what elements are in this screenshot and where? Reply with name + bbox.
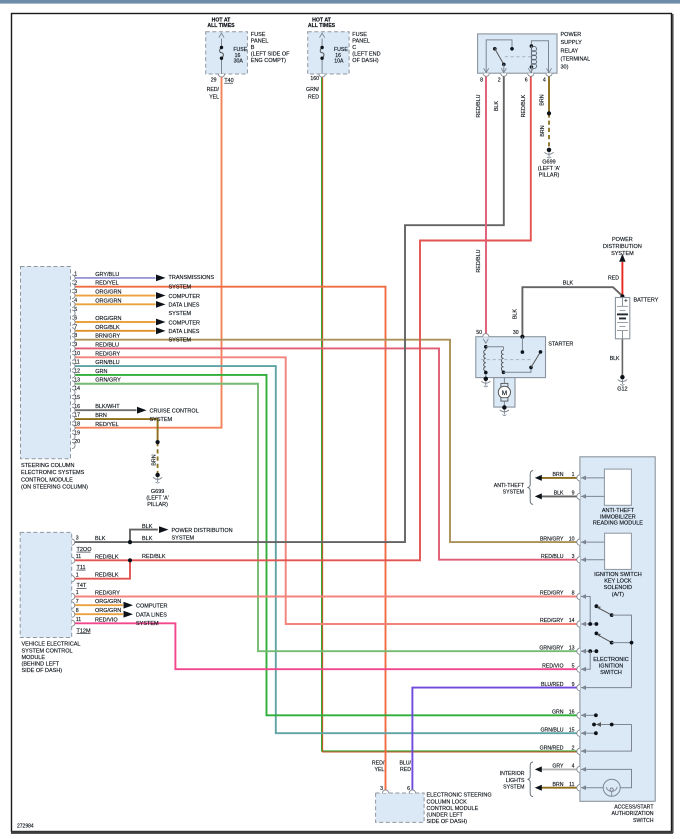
access/start switch lamp circuit [581, 769, 632, 787]
wire ORG/GRN steering pin 4 [74, 303, 156, 305]
arrow to power distribution system [159, 526, 169, 533]
svg-text:GRY: GRY [552, 764, 564, 770]
ignition switch contact A [595, 604, 599, 608]
battery [615, 298, 629, 339]
wire RED/BLK vehicle module pin 11 to power supply relay pin 6 [75, 76, 531, 560]
svg-text:RED/GRY: RED/GRY [540, 618, 564, 624]
junction dot battery positive [620, 294, 624, 298]
svg-text:11: 11 [74, 360, 79, 366]
arrow computer data lines (pins 6,7) [156, 319, 166, 326]
wire BLK anti-theft reading module pin 9 to anti-theft system [541, 495, 577, 497]
svg-text:GRN/BLU: GRN/BLU [95, 360, 119, 366]
svg-text:RED/GRY: RED/GRY [95, 351, 120, 357]
svg-text:BRN/GRY: BRN/GRY [540, 536, 564, 542]
right box pin connectors and labels [577, 475, 580, 481]
ignition/access module assembly box [580, 457, 655, 802]
svg-text:DATA LINES: DATA LINES [136, 612, 167, 618]
ignition switch contact B [595, 632, 599, 636]
svg-text:(LEFT 'A': (LEFT 'A' [146, 495, 168, 501]
starter mechanical link dashed [481, 359, 531, 361]
wire RED/GRY steering pin 10 to ignition switch pin 14 [74, 357, 577, 624]
svg-text:1: 1 [572, 472, 575, 478]
svg-text:RED/YEL: RED/YEL [95, 281, 119, 287]
wire RED/YEL fuse panel B to steering module pin 18 [74, 77, 222, 428]
svg-text:ORG/BLK: ORG/BLK [95, 325, 120, 331]
svg-text:14: 14 [569, 618, 575, 624]
svg-text:50: 50 [476, 330, 482, 336]
lock module pin 3 connector [382, 790, 388, 793]
arrow computer data lines (pins 3,4) [156, 292, 166, 299]
svg-text:20: 20 [74, 439, 80, 445]
svg-text:4: 4 [543, 78, 546, 84]
junction dot BRN G699 [156, 440, 160, 444]
wire BRN anti-theft reading module pin 1 to anti-theft system [541, 477, 577, 479]
svg-text:4: 4 [572, 764, 575, 770]
svg-text:BRN/GRY: BRN/GRY [95, 334, 120, 340]
svg-text:BRN: BRN [540, 94, 546, 105]
svg-text:CONTROL MODULE: CONTROL MODULE [427, 806, 479, 812]
svg-text:INTERIOR: INTERIOR [500, 771, 525, 777]
svg-text:OF DASH): OF DASH) [352, 58, 378, 64]
wire RED battery positive to power distribution system [621, 262, 623, 296]
relay pin arrows and connectors [484, 68, 489, 72]
svg-text:G699: G699 [151, 489, 164, 495]
starter box [476, 337, 546, 378]
svg-text:VEHICLE ELECTRICAL: VEHICLE ELECTRICAL [22, 642, 81, 648]
svg-text:8: 8 [76, 608, 79, 614]
svg-text:11: 11 [76, 617, 81, 623]
wire BLK/WHT steering pin 16 to cruise control system [74, 409, 137, 411]
svg-text:30A: 30A [234, 59, 244, 65]
svg-text:SYSTEM: SYSTEM [150, 417, 173, 423]
electronic ignition switch internal wiring [581, 597, 590, 625]
svg-text:ORG/GRN: ORG/GRN [95, 599, 121, 605]
wire GRN/BLU steering pin 11 to access/start switch pin 15 [74, 366, 577, 733]
starter solenoid coils [485, 345, 487, 350]
connector fuse panel B [218, 74, 224, 77]
fuse 16 panel C [321, 39, 323, 48]
svg-text:3: 3 [572, 554, 575, 560]
svg-text:SYSTEM: SYSTEM [503, 784, 524, 790]
wire BLK battery negative to ground G12 [621, 339, 623, 377]
svg-text:ORG/GRN: ORG/GRN [95, 316, 121, 322]
svg-text:BRN: BRN [553, 472, 564, 478]
svg-text:C: C [352, 45, 356, 51]
wire GRN steering pin 12 to access/start switch pin 16 [74, 375, 577, 715]
svg-text:16: 16 [569, 710, 575, 716]
svg-text:SYSTEM: SYSTEM [503, 489, 524, 495]
svg-text:LIGHTS: LIGHTS [506, 778, 525, 784]
svg-text:STEERING COLUMN: STEERING COLUMN [21, 463, 75, 469]
svg-text:6: 6 [525, 78, 528, 84]
svg-text:RED/BLK: RED/BLK [142, 554, 166, 560]
svg-text:BATTERY: BATTERY [634, 297, 659, 303]
svg-text:BLK: BLK [142, 536, 153, 542]
svg-text:BLK/WHT: BLK/WHT [95, 404, 120, 410]
svg-text:SWITCH: SWITCH [633, 818, 654, 824]
wire BRN power supply relay pin 4 to ground G699 [548, 76, 550, 113]
svg-text:PILLAR): PILLAR) [147, 502, 168, 508]
svg-text:19: 19 [74, 430, 80, 436]
svg-text:1: 1 [76, 572, 79, 578]
ground G12 [620, 375, 624, 379]
svg-text:ORG/GRN: ORG/GRN [95, 608, 121, 614]
svg-text:PANEL: PANEL [251, 39, 269, 45]
svg-text:BLU/: BLU/ [399, 760, 411, 766]
wire BRN/GRY steering pin 8 to key lock solenoid pin 10 [74, 340, 577, 542]
svg-text:SYSTEM: SYSTEM [172, 535, 195, 541]
arrow computer data lines (vehicle pins 7,8) [124, 602, 134, 609]
starter solenoid ground [484, 377, 488, 381]
svg-text:BRN: BRN [151, 454, 157, 465]
lock module pin 6 connector [409, 790, 415, 793]
svg-text:7: 7 [74, 324, 77, 330]
access/start switch contacts [581, 714, 596, 716]
svg-text:15: 15 [569, 727, 575, 733]
starter motor [503, 378, 505, 384]
svg-text:ANTI-THEFT: ANTI-THEFT [494, 483, 525, 489]
svg-text:SIDE OF DASH): SIDE OF DASH) [22, 668, 63, 674]
svg-text:FUSE: FUSE [251, 32, 266, 38]
svg-text:13: 13 [74, 377, 80, 383]
svg-text:M: M [502, 390, 507, 397]
svg-text:(UNDER LEFT: (UNDER LEFT [427, 813, 464, 819]
svg-text:2: 2 [74, 280, 77, 286]
svg-text:BLK: BLK [563, 280, 574, 286]
svg-text:17: 17 [74, 413, 80, 419]
svg-text:5: 5 [572, 663, 575, 669]
svg-text:RED: RED [400, 767, 411, 773]
svg-text:RED: RED [608, 276, 619, 282]
svg-text:SWITCH: SWITCH [600, 670, 622, 676]
svg-text:SYSTEM CONTROL: SYSTEM CONTROL [22, 648, 73, 654]
svg-text:SYSTEM: SYSTEM [611, 251, 634, 257]
svg-text:ALL TIMES: ALL TIMES [308, 23, 336, 29]
svg-text:IMMOBILIZER: IMMOBILIZER [600, 514, 636, 520]
fuse panel C box [308, 32, 349, 74]
svg-text:11: 11 [76, 554, 81, 560]
svg-text:YEL: YEL [374, 767, 384, 773]
ignition switch pins 13 and 5 [581, 650, 596, 652]
svg-text:11: 11 [569, 782, 574, 788]
svg-text:G12: G12 [617, 386, 627, 392]
fuse 16 panel B [221, 39, 223, 48]
connector fuse panel C [319, 74, 325, 77]
svg-text:RED/: RED/ [207, 87, 220, 93]
svg-text:2: 2 [498, 78, 501, 84]
svg-text:ORG/GRN: ORG/GRN [95, 290, 121, 296]
svg-text:SUPPLY: SUPPLY [561, 40, 583, 46]
svg-text:ALL TIMES: ALL TIMES [207, 23, 235, 29]
svg-text:ENG COMPT): ENG COMPT) [251, 58, 286, 64]
svg-text:9: 9 [74, 342, 77, 348]
interior lamp [603, 779, 620, 796]
svg-text:GRN: GRN [95, 369, 107, 375]
svg-text:3: 3 [76, 536, 79, 542]
svg-text:ORG/GRN: ORG/GRN [95, 298, 121, 304]
svg-text:272984: 272984 [17, 824, 34, 830]
wire ORG/GRN vehicle module pin 8 [75, 613, 123, 615]
wire GRN/GRY steering pin 13 to ignition switch pin 13 [74, 384, 577, 651]
svg-text:30: 30 [513, 330, 519, 336]
svg-text:AUTHORIZATION: AUTHORIZATION [612, 811, 654, 817]
svg-text:BLK: BLK [142, 524, 153, 530]
svg-text:BRN: BRN [540, 125, 546, 136]
wire BLK vehicle module pin 3 to power supply relay pin 2 [75, 76, 504, 542]
svg-text:8: 8 [572, 591, 575, 597]
wire RED/BLK vehicle module pin 1 [75, 560, 130, 578]
steering column electronic systems control module box [21, 267, 71, 459]
svg-text:KEY LOCK: KEY LOCK [604, 579, 632, 585]
svg-text:29: 29 [211, 78, 217, 84]
svg-text:GRY/BLU: GRY/BLU [95, 272, 119, 278]
relay coil [531, 41, 548, 73]
svg-text:5: 5 [74, 307, 77, 313]
wire RED/BLU power supply relay pin 8 to starter pin 50 [485, 76, 487, 333]
svg-text:GRN/RED: GRN/RED [540, 746, 564, 752]
svg-text:(TERMINAL: (TERMINAL [561, 56, 591, 62]
svg-text:3: 3 [74, 289, 77, 295]
arrow cruise control system [137, 407, 147, 414]
svg-text:PILLAR): PILLAR) [539, 173, 560, 179]
wire GRY access/start switch pin 4 to interior lights system [541, 768, 577, 770]
svg-text:ELECTRONIC SYSTEMS: ELECTRONIC SYSTEMS [21, 470, 85, 476]
brace interior lights system [528, 762, 533, 797]
svg-text:RED/BLU: RED/BLU [95, 342, 119, 348]
wire RED/BLU steering pin 9 to key lock solenoid pin 3 [74, 348, 577, 559]
svg-text:FUSE: FUSE [352, 32, 367, 38]
wire BRN dashed segment relay ground [548, 113, 550, 149]
svg-text:18: 18 [74, 421, 80, 427]
svg-text:CRUISE CONTROL: CRUISE CONTROL [150, 409, 199, 415]
svg-text:DATA LINES: DATA LINES [169, 329, 200, 335]
svg-text:(ON STEERING COLUMN): (ON STEERING COLUMN) [21, 485, 88, 491]
svg-text:RED/BLU: RED/BLU [476, 249, 482, 272]
svg-text:ACCESS/START: ACCESS/START [614, 805, 654, 811]
svg-text:GRN/: GRN/ [306, 87, 320, 93]
svg-text:+: + [624, 297, 628, 304]
relay mechanical link dashed [505, 56, 533, 58]
svg-text:3: 3 [380, 786, 383, 792]
svg-text:POWER: POWER [561, 32, 582, 38]
ground G699 left A pillar (relay) [547, 148, 551, 152]
svg-text:(LEFT END: (LEFT END [352, 52, 380, 58]
svg-text:POWER DISTRIBUTION: POWER DISTRIBUTION [172, 528, 233, 534]
svg-text:10A: 10A [334, 59, 344, 65]
svg-text:BLK: BLK [554, 491, 564, 497]
arrow up power distribution system (battery) [619, 254, 625, 262]
svg-text:COMPUTER: COMPUTER [136, 604, 168, 610]
wire BLU/RED steering column lock pin 6 to ignition switch pin 9 [412, 688, 576, 790]
starter switch contact [504, 367, 532, 372]
svg-text:SYSTEM: SYSTEM [136, 621, 159, 627]
anti-theft immobilizer reading module inner box [604, 469, 631, 505]
wire ORG/GRN steering pin 6 [74, 321, 156, 323]
arrow transmissions system [156, 275, 166, 282]
svg-text:RED/GRY: RED/GRY [540, 591, 564, 597]
access/start switch wiper [594, 724, 632, 726]
svg-text:15: 15 [74, 395, 80, 401]
svg-text:RED: RED [308, 95, 319, 101]
svg-text:YEL: YEL [209, 95, 219, 101]
svg-text:IGNITION: IGNITION [599, 664, 623, 670]
svg-text:8: 8 [74, 333, 77, 339]
ignition switch pin 9 wire [581, 687, 632, 689]
svg-text:PANEL: PANEL [352, 39, 370, 45]
starter motor box [494, 378, 515, 408]
svg-text:COMPUTER: COMPUTER [169, 320, 201, 326]
svg-text:GRN/GRY: GRN/GRY [539, 645, 564, 651]
svg-text:IGNITION SWITCH: IGNITION SWITCH [594, 572, 642, 578]
svg-text:POWER: POWER [612, 237, 633, 243]
junction dot BLK [128, 540, 132, 544]
svg-text:DATA LINES: DATA LINES [169, 303, 200, 309]
svg-text:10: 10 [569, 536, 575, 542]
svg-text:6: 6 [407, 786, 410, 792]
svg-text:BLK: BLK [494, 101, 500, 111]
starter motor ground [502, 405, 506, 409]
svg-text:BRN: BRN [95, 413, 107, 419]
steering module pin connectors [72, 275, 75, 281]
svg-text:7: 7 [76, 599, 79, 605]
brace anti-theft system [528, 471, 533, 505]
relay switch contact [486, 40, 512, 73]
junction dot BRN relay [547, 111, 551, 115]
wire ORG/GRN vehicle module pin 7 [75, 604, 123, 606]
svg-text:(LEFT 'A': (LEFT 'A' [538, 166, 560, 172]
page top bar [0, 0, 680, 4]
svg-text:RED/VIO: RED/VIO [542, 663, 563, 669]
svg-text:COLUMN LOCK: COLUMN LOCK [427, 799, 468, 805]
svg-text:(BEHIND LEFT: (BEHIND LEFT [22, 662, 60, 668]
svg-text:RED/BLU: RED/BLU [476, 94, 482, 117]
svg-text:RED/GRY: RED/GRY [95, 591, 120, 597]
svg-text:6: 6 [74, 316, 77, 322]
svg-text:RED/: RED/ [372, 760, 385, 766]
ground G699 left A pillar (steering) [156, 473, 160, 477]
wire ORG/GRN steering pin 3 [74, 295, 156, 297]
wire BRN steering pin 17 to ground G699 [74, 419, 158, 442]
svg-text:8: 8 [480, 78, 483, 84]
svg-text:12: 12 [74, 369, 80, 375]
svg-text:BLK: BLK [610, 356, 620, 362]
power supply relay box [478, 34, 557, 73]
svg-text:COMPUTER: COMPUTER [169, 294, 201, 300]
svg-text:1: 1 [74, 272, 77, 278]
svg-text:30): 30) [561, 64, 569, 70]
ignition switch key lock solenoid inner box [605, 533, 632, 569]
wire GRN/RED fuse panel C to access/start switch pin 2 [322, 77, 577, 751]
fuse panel B box [206, 32, 248, 74]
junction dot RED/BLK [128, 558, 132, 562]
svg-text:9: 9 [572, 682, 575, 688]
svg-text:READING MODULE: READING MODULE [593, 521, 643, 527]
svg-text:STARTER: STARTER [548, 342, 573, 348]
svg-text:G699: G699 [542, 159, 555, 165]
svg-text:BLU/RED: BLU/RED [541, 682, 564, 688]
wire RED/VIO vehicle module pin 11 to ignition switch pin 5 [75, 623, 577, 669]
svg-text:SYSTEM: SYSTEM [169, 285, 192, 291]
svg-text:14: 14 [74, 386, 80, 392]
svg-text:B: B [251, 45, 255, 51]
wire RED/GRY vehicle module pin 1 to ignition switch pin 8 [75, 596, 577, 598]
svg-text:MODULE: MODULE [22, 655, 46, 661]
svg-text:RED/BLK: RED/BLK [521, 94, 527, 117]
wire BRN dashed segment to G699 [157, 442, 159, 475]
svg-text:9: 9 [572, 491, 575, 497]
svg-text:160: 160 [310, 76, 319, 82]
svg-text:10: 10 [74, 351, 80, 357]
wire ORG/BLK steering pin 7 [74, 330, 156, 332]
svg-text:GRN/BLU: GRN/BLU [540, 727, 563, 733]
svg-text:ELECTRONIC STEERING: ELECTRONIC STEERING [427, 793, 492, 799]
svg-text:RED/BLU: RED/BLU [541, 554, 564, 560]
svg-text:16: 16 [74, 404, 80, 410]
electronic steering column lock control module box [376, 793, 425, 822]
svg-text:SIDE OF DASH): SIDE OF DASH) [427, 819, 468, 825]
svg-text:RED/YEL: RED/YEL [95, 422, 119, 428]
svg-text:GRN/GRY: GRN/GRY [95, 378, 121, 384]
svg-text:TRANSMISSIONS: TRANSMISSIONS [169, 275, 215, 281]
svg-text:4: 4 [74, 298, 77, 304]
svg-text:BLK: BLK [95, 536, 106, 542]
svg-text:ANTI-THEFT: ANTI-THEFT [602, 508, 635, 514]
svg-text:DISTRIBUTION: DISTRIBUTION [603, 244, 642, 250]
svg-text:GRN: GRN [552, 710, 564, 716]
svg-text:BRN: BRN [553, 782, 564, 788]
starter pin 50 connector [483, 334, 489, 337]
wire BLK starter pin 30 to battery positive [522, 287, 622, 337]
svg-text:SYSTEM: SYSTEM [169, 338, 192, 344]
svg-text:RED/BLK: RED/BLK [95, 573, 119, 579]
svg-text:2: 2 [572, 746, 575, 752]
svg-text:CONTROL MODULE: CONTROL MODULE [21, 477, 73, 483]
svg-text:SOLENOID: SOLENOID [604, 585, 632, 591]
starter pin 30 terminal [520, 335, 524, 339]
vehicle electrical system control module box [20, 532, 71, 637]
svg-text:RED/BLK: RED/BLK [95, 554, 119, 560]
wire RED/YEL steering pin 2 to steering column lock pin 3 [74, 287, 386, 790]
svg-text:RED/VIO: RED/VIO [95, 617, 118, 623]
svg-text:ELECTRONIC: ELECTRONIC [593, 657, 628, 663]
svg-text:1: 1 [76, 590, 79, 596]
vehicle module pin connectors [72, 539, 75, 545]
svg-text:(A/T): (A/T) [612, 592, 624, 598]
wire GRY/BLU steering pin 1 to transmissions system [74, 277, 156, 279]
svg-text:(LEFT SIDE OF: (LEFT SIDE OF [251, 52, 290, 58]
svg-text:BLK: BLK [513, 309, 519, 319]
wire BLK branch to power distribution system [130, 530, 158, 543]
svg-text:13: 13 [569, 645, 575, 651]
svg-text:SYSTEM: SYSTEM [169, 311, 192, 317]
wire BRN access/start switch pin 11 to interior lights system [541, 787, 577, 789]
svg-text:RELAY: RELAY [561, 48, 579, 54]
